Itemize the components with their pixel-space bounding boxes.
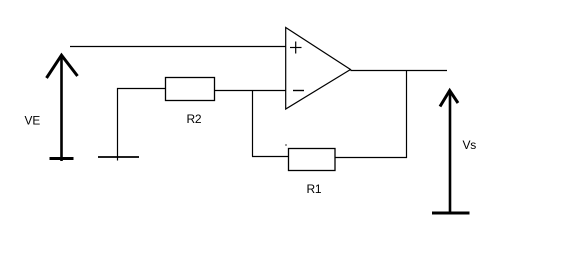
stray dot near R1 top-left <box>285 144 287 146</box>
svg-text:R1: R1 <box>307 182 322 196</box>
wire: R1 right to output vertical <box>335 157 407 159</box>
voltage source VE (arrow symbol) <box>47 55 78 161</box>
op-amp - input marking <box>293 90 304 92</box>
wire: feedback vertical from inverting node down <box>252 90 254 157</box>
wire: output node vertical (feedback tap) <box>406 70 408 158</box>
wire: R2 right to op-amp inverting input (node with feedback) <box>215 90 287 92</box>
wire: VE top node to op-amp non-inverting input <box>70 46 286 48</box>
svg-text:R2: R2 <box>187 112 202 126</box>
wire: op-amp output <box>351 70 448 72</box>
wire: ground corner up to R2 left <box>118 89 166 161</box>
resistor R2 <box>166 78 215 101</box>
svg-text:VE: VE <box>25 114 41 128</box>
voltage source Vs (arrow symbol) <box>432 91 470 214</box>
resistor R1 <box>289 149 336 171</box>
svg-text:Vs: Vs <box>463 138 477 152</box>
wire: horizontal to R1 left <box>252 156 289 158</box>
ground (under R2) <box>98 156 139 158</box>
op-amp U1 triangle <box>286 28 351 110</box>
op-amp + input marking <box>290 42 302 54</box>
